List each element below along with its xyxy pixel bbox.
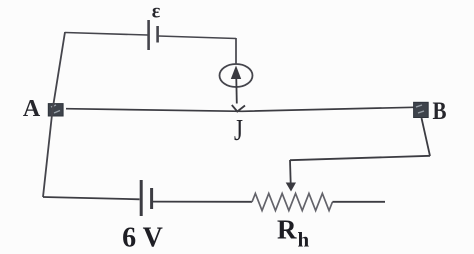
battery cell E short plate — [156, 26, 159, 43]
wire top-right (battery to corner above galvanometer) — [159, 36, 236, 39]
jockey down arrowhead at J — [232, 105, 245, 112]
battery cell E long plate — [147, 20, 150, 50]
wire top-left (battery eps to top-left corner) — [65, 33, 148, 36]
wiper arrow shaft — [289, 160, 292, 184]
battery 6V long plate — [140, 180, 143, 216]
galvanometer circle — [220, 64, 253, 87]
rheostat Rh zigzag — [252, 194, 332, 211]
terminal B square — [414, 102, 429, 117]
wire 6V battery to rheostat — [152, 201, 252, 203]
svg-text:ε: ε — [152, 1, 161, 23]
jockey shaft wire — [235, 79, 238, 104]
wire bottom-left to 6V battery — [43, 197, 140, 199]
svg-text:B: B — [433, 98, 447, 125]
battery 6V short plate — [150, 188, 153, 209]
wiper arrowhead onto rheostat — [286, 183, 296, 192]
svg-text:6 V: 6 V — [122, 223, 163, 254]
terminal A square — [48, 104, 63, 116]
svg-text:R: R — [277, 215, 297, 245]
potentiometer wire A-B — [66, 107, 414, 111]
wire vertical into galvanometer — [235, 38, 237, 65]
svg-text:h: h — [298, 228, 310, 252]
wire right of rheostat (open end) — [332, 201, 385, 203]
needle up-arrow inside galvanometer — [231, 66, 241, 80]
wire down from B — [422, 118, 431, 156]
svg-text:J: J — [234, 112, 243, 147]
svg-text:A: A — [23, 96, 41, 122]
wire left side (top corner through A to bottom corner) — [43, 32, 65, 197]
wire from B corner left to rheostat wiper — [290, 156, 430, 160]
